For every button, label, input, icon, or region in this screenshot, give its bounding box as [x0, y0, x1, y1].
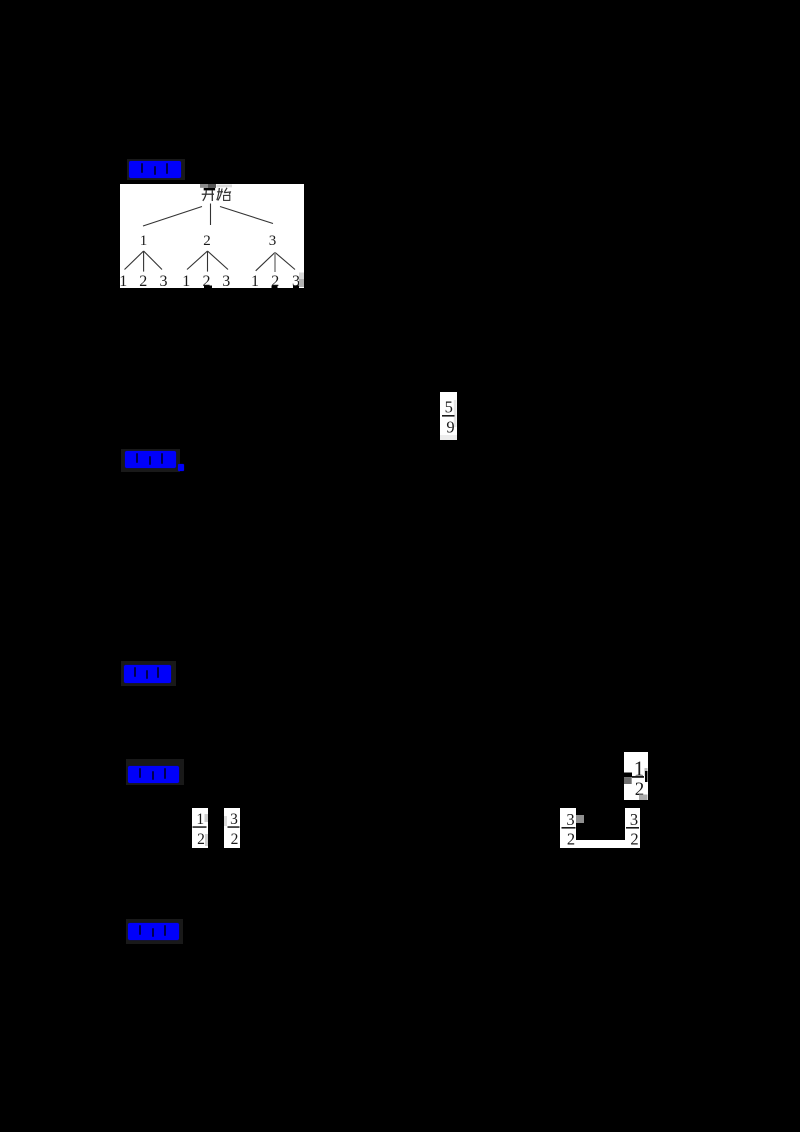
svg-text:2: 2	[197, 831, 205, 848]
svg-text:5: 5	[445, 397, 453, 416]
svg-text:2: 2	[203, 233, 211, 249]
svg-text:1: 1	[251, 273, 259, 288]
svg-text:2: 2	[231, 831, 239, 848]
svg-text:3: 3	[630, 810, 638, 829]
svg-text:3: 3	[566, 810, 574, 829]
svg-text:1: 1	[120, 273, 127, 288]
svg-text:1: 1	[196, 811, 204, 828]
svg-text:2: 2	[139, 273, 147, 288]
svg-text:1: 1	[140, 233, 148, 249]
svg-text:9: 9	[446, 418, 454, 437]
svg-text:1: 1	[182, 273, 190, 288]
svg-text:3: 3	[160, 273, 168, 288]
svg-text:3: 3	[222, 273, 230, 288]
svg-text:3: 3	[230, 811, 238, 828]
svg-text:3: 3	[269, 233, 277, 249]
svg-text:2: 2	[567, 830, 575, 849]
svg-text:2: 2	[630, 830, 638, 849]
